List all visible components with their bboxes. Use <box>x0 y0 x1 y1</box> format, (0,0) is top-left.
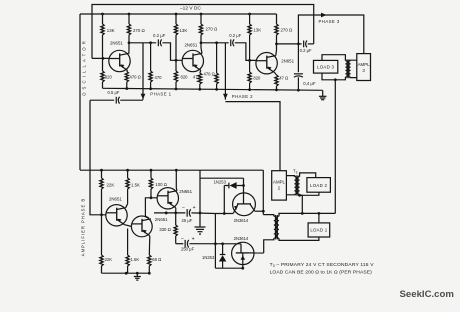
svg-text:2N651: 2N651 <box>185 42 198 47</box>
svg-text:AMPL: AMPL <box>273 180 286 185</box>
svg-text:−: − <box>181 236 184 242</box>
svg-text:AMPLIFIER PHASE B: AMPLIFIER PHASE B <box>81 198 86 256</box>
svg-text:2N651: 2N651 <box>179 189 192 194</box>
svg-text:2N651: 2N651 <box>109 197 122 202</box>
svg-text:0.2 μF: 0.2 μF <box>229 33 241 38</box>
svg-text:OSCILLATOR: OSCILLATOR <box>82 38 87 96</box>
svg-text:1N253: 1N253 <box>214 180 227 185</box>
svg-text:–12 V DC: –12 V DC <box>180 5 201 11</box>
svg-text:PHASE 3: PHASE 3 <box>319 19 340 24</box>
svg-text:13K: 13K <box>180 28 188 33</box>
svg-text:270 Ω: 270 Ω <box>133 28 145 33</box>
svg-text:270 Ω: 270 Ω <box>206 27 218 32</box>
svg-text:820: 820 <box>181 75 189 80</box>
svg-text:470 Ω: 470 Ω <box>204 72 215 77</box>
svg-text:470: 470 <box>155 75 163 80</box>
svg-text:T3: T3 <box>293 169 298 175</box>
svg-text:LOAD 2: LOAD 2 <box>310 183 327 188</box>
svg-text:0.5 μF: 0.5 μF <box>108 90 120 95</box>
svg-text:2N651: 2N651 <box>281 59 294 64</box>
svg-text:0,4 μF: 0,4 μF <box>303 81 316 86</box>
svg-text:0.2 μF: 0.2 μF <box>153 33 166 38</box>
svg-text:LOAD 1: LOAD 1 <box>310 228 327 233</box>
svg-text:AMPL: AMPL <box>358 62 371 67</box>
svg-text:1.5K: 1.5K <box>131 257 140 262</box>
svg-text:470 Ω: 470 Ω <box>130 75 141 80</box>
svg-text:+: + <box>193 205 196 211</box>
svg-text:2N3614: 2N3614 <box>234 218 249 223</box>
svg-text:LOAD 3: LOAD 3 <box>317 65 334 70</box>
svg-text:330 Ω: 330 Ω <box>159 227 171 232</box>
svg-text:100 Ω: 100 Ω <box>155 182 167 187</box>
svg-text:T3 – PRIMARY 24 V CT SECONDAR: T3 – PRIMARY 24 V CT SECONDARY 115 V <box>270 262 375 268</box>
svg-text:SeekIC.com: SeekIC.com <box>400 289 454 300</box>
svg-text:PHASE 2: PHASE 2 <box>232 94 253 99</box>
svg-text:47: 47 <box>193 75 198 80</box>
svg-text:2N651: 2N651 <box>110 40 123 45</box>
svg-text:1N253: 1N253 <box>202 255 215 260</box>
svg-text:68 Ω: 68 Ω <box>152 257 161 262</box>
svg-text:820: 820 <box>105 75 113 80</box>
svg-text:2N651: 2N651 <box>155 217 168 222</box>
svg-text:25 μF: 25 μF <box>182 218 193 223</box>
svg-text:LOAD CAN BE 200 Ω to 1K Ω (: LOAD CAN BE 200 Ω to 1K Ω (PER PHASE) <box>270 270 373 276</box>
svg-text:22K: 22K <box>105 257 113 262</box>
svg-text:13K: 13K <box>253 27 261 32</box>
svg-text:1.5K: 1.5K <box>131 183 140 188</box>
svg-text:22K: 22K <box>107 183 115 188</box>
svg-text:0.2 μF: 0.2 μF <box>300 48 312 53</box>
svg-text:2N3614: 2N3614 <box>234 236 249 241</box>
svg-text:820: 820 <box>253 76 261 81</box>
svg-text:47 Ω: 47 Ω <box>279 76 288 81</box>
svg-text:+: + <box>192 236 195 242</box>
svg-text:270 Ω: 270 Ω <box>281 27 293 32</box>
svg-text:250 μF: 250 μF <box>181 247 195 252</box>
svg-text:PHASE 1: PHASE 1 <box>150 91 171 96</box>
svg-text:13K: 13K <box>107 28 115 33</box>
svg-text:−: − <box>182 205 185 211</box>
